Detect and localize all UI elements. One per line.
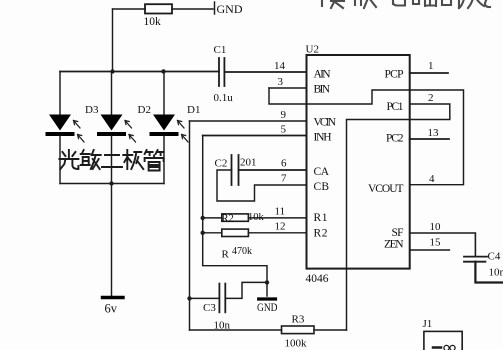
- wire top-left horizontal to resistor: [113, 8, 146, 10]
- capacitor C1: [214, 44, 234, 104]
- svg-text:1: 1: [428, 60, 434, 72]
- svg-text:6v: 6v: [105, 302, 118, 316]
- svg-text:C1: C1: [214, 44, 227, 56]
- svg-text:VCIN: VCIN: [314, 117, 337, 129]
- svg-text:0.1u: 0.1u: [214, 92, 234, 104]
- svg-text:AIN: AIN: [314, 69, 332, 81]
- wire anode bus: [60, 71, 219, 73]
- wire vertical pin5 down: [203, 136, 267, 297]
- svg-text:4046: 4046: [306, 273, 329, 285]
- svg-text:201: 201: [240, 157, 257, 169]
- wire vertical up from R3 through IC to PC1 loop: [347, 104, 450, 330]
- svg-text:R2: R2: [222, 214, 234, 225]
- node junction bus/D2: [110, 69, 114, 73]
- IC pin labels right: [368, 69, 404, 251]
- svg-text:7: 7: [281, 173, 287, 185]
- svg-text:R2: R2: [314, 228, 328, 240]
- capacitor C3: [203, 284, 231, 332]
- svg-text:10k: 10k: [248, 212, 265, 223]
- svg-text:R3: R3: [292, 314, 305, 326]
- wire down to 6v: [111, 184, 113, 297]
- svg-text:D1: D1: [187, 104, 200, 116]
- wire pin15 ZEN: [410, 249, 450, 251]
- resistor R2 10k: [222, 214, 249, 221]
- wire pin14 AIN: [224, 71, 306, 73]
- photodiode D3: [48, 72, 99, 184]
- power 6v bar: [103, 296, 124, 299]
- svg-text:PCP: PCP: [385, 69, 404, 81]
- resistor R3 100k: [282, 326, 315, 334]
- wire pin6 CA: [239, 169, 307, 171]
- svg-text:ZEN: ZEN: [384, 239, 404, 251]
- node junction GND drop: [265, 280, 269, 284]
- label 光敏二极管 (photodiode, drawn strokes): [59, 150, 163, 171]
- wire C2 left loop to pin7 CB: [217, 170, 307, 201]
- wire resistor to GND: [172, 8, 213, 10]
- node junction pin5line/R2: [201, 216, 205, 220]
- ground GND (top) tick: [214, 2, 216, 14]
- wire pin9 VCIN: [190, 120, 307, 122]
- svg-text:100k: 100k: [285, 338, 308, 350]
- svg-text:GND: GND: [217, 2, 243, 16]
- wire C3 right to GND node: [225, 282, 267, 298]
- ground bar near C3: [259, 297, 276, 300]
- op-amp U2 IC 4046 box: [307, 55, 410, 269]
- svg-text:470k: 470k: [232, 245, 252, 257]
- photodiode D2: [99, 72, 151, 184]
- svg-text:4: 4: [429, 173, 435, 185]
- wire pin1 PCP: [410, 72, 448, 74]
- wire pin5 INH: [203, 135, 307, 137]
- svg-text:C3: C3: [203, 302, 216, 314]
- svg-text:BIN: BIN: [314, 84, 331, 96]
- svg-text:CA: CA: [314, 166, 330, 178]
- node junction cathode bus / 6v: [109, 181, 113, 185]
- wire vertical pin9 down to R3: [189, 121, 191, 330]
- photodiode D1: [152, 72, 201, 184]
- svg-text:VCOUT: VCOUT: [368, 183, 404, 195]
- wire R3 right: [314, 329, 347, 331]
- svg-text:SF: SF: [392, 227, 404, 239]
- svg-text:INH: INH: [314, 132, 332, 144]
- wire pin11 R1: [203, 217, 222, 219]
- IC pin labels left: [314, 69, 337, 240]
- svg-text:12: 12: [275, 221, 286, 233]
- svg-text:C2: C2: [215, 158, 228, 170]
- capacitor C4: [464, 251, 503, 279]
- wire pin12 R2: [203, 232, 222, 234]
- svg-text:10: 10: [430, 221, 442, 233]
- resistor R 470k: [222, 229, 249, 236]
- svg-text:R: R: [222, 249, 230, 261]
- wire C3 left: [190, 297, 220, 299]
- svg-text:C4: C4: [488, 251, 501, 263]
- wire R3 left: [190, 329, 282, 331]
- svg-text:9: 9: [281, 109, 287, 121]
- svg-text:14: 14: [274, 60, 286, 72]
- node junction C3 left: [187, 296, 191, 300]
- wire BIN loop down: [269, 88, 464, 185]
- resistor 10k (top): [145, 4, 172, 13]
- connector J1 inner marks: [433, 346, 441, 349]
- wire pin3 BIN: [269, 87, 307, 89]
- svg-text:2: 2: [428, 92, 434, 104]
- node junction pin5line/R: [201, 231, 205, 235]
- svg-text:10k: 10k: [144, 16, 162, 28]
- svg-text:5: 5: [281, 124, 287, 136]
- wire cathode bus: [60, 183, 164, 185]
- svg-text:PC1: PC1: [387, 101, 404, 113]
- svg-text:R1: R1: [314, 212, 328, 224]
- wire pin10 SF: [410, 233, 476, 257]
- capacitor C2: [215, 155, 257, 185]
- svg-text:3: 3: [278, 76, 284, 88]
- svg-text:6: 6: [281, 158, 287, 170]
- svg-text:10n: 10n: [489, 267, 503, 279]
- svg-text:D3: D3: [85, 104, 99, 116]
- svg-text:PC2: PC2: [386, 133, 404, 145]
- node junction bus/D1: [161, 69, 165, 73]
- svg-text:15: 15: [430, 237, 442, 249]
- svg-text:13: 13: [428, 127, 440, 139]
- svg-text:CB: CB: [314, 181, 330, 193]
- svg-text:GND: GND: [257, 302, 278, 314]
- wire pin13 PC2: [410, 138, 449, 140]
- svg-text:D2: D2: [138, 104, 151, 116]
- svg-text:U2: U2: [306, 44, 319, 56]
- svg-text:11: 11: [275, 206, 286, 218]
- wire C4 bottom out right: [475, 262, 503, 283]
- label title 接收电路部分 (cut off strokes): [322, 0, 490, 8]
- wire vertical from 10k down to bus: [112, 9, 114, 72]
- svg-text:J1: J1: [423, 318, 433, 330]
